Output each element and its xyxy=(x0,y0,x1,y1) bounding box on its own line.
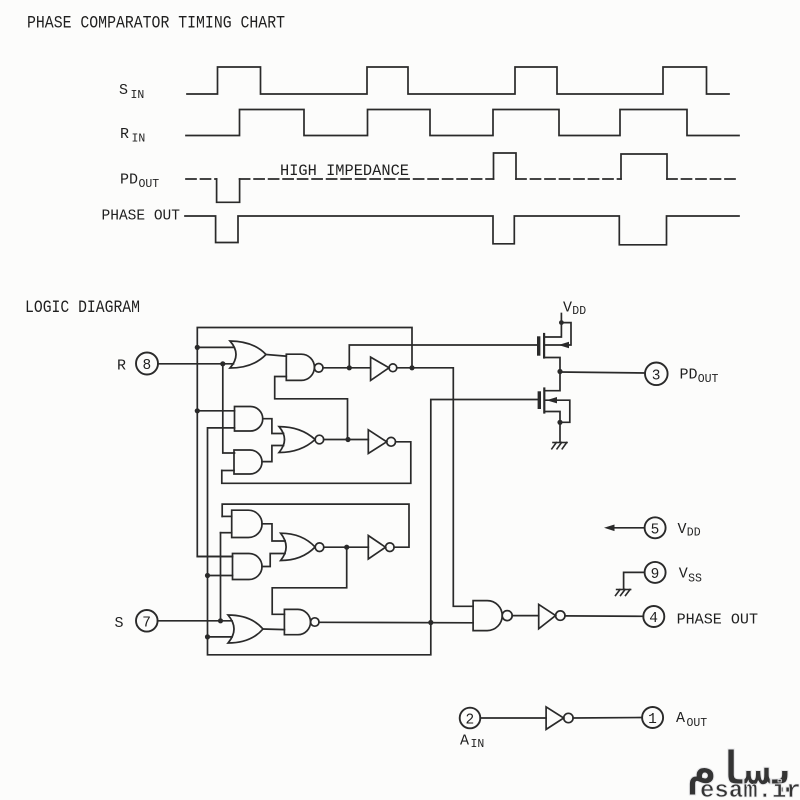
svg-text:OUT: OUT xyxy=(687,717,708,730)
ground symbol (VSS) xyxy=(616,590,631,596)
wire: INV4 output to pin 4 xyxy=(565,615,643,617)
inverter INV4 xyxy=(539,604,556,628)
waveform PD OUT low pulse xyxy=(217,179,240,202)
and-gate AND-B xyxy=(234,450,262,474)
pin 4 circle xyxy=(643,606,664,627)
svg-text:LOGIC DIAGRAM: LOGIC DIAGRAM xyxy=(25,298,140,318)
wire: OR1 top input from feedback rail xyxy=(197,346,234,348)
label PD OUT (pin 3) xyxy=(680,367,719,386)
wire: AND-C bottom input from S branch xyxy=(221,532,232,534)
bubble NAND2 output xyxy=(311,618,319,626)
wire: AND-A bottom input from NAND2-output rail xyxy=(209,427,235,429)
wire: AND-A output step into NOR2 top input xyxy=(263,419,284,434)
svg-text:A: A xyxy=(676,710,685,727)
svg-text:4: 4 xyxy=(649,611,658,627)
pin 8 circle xyxy=(136,353,158,375)
wire: VDD stub xyxy=(560,314,562,323)
and-gate AND-A xyxy=(235,407,263,432)
waveform PD OUT high pulse 1 xyxy=(494,153,517,179)
svg-text:3: 3 xyxy=(652,368,661,384)
wire: AND-D top input from vertical A (INV1 feedback) xyxy=(197,556,232,558)
wire: NOR2 output to INV2 xyxy=(324,439,369,441)
label A IN (pin 2) xyxy=(460,733,484,752)
svg-text:1: 1 xyxy=(648,712,657,728)
svg-text:5: 5 xyxy=(651,522,660,538)
wire: PMOS body loop xyxy=(545,323,571,345)
wire: pin 7 to OR4 top input xyxy=(158,620,232,622)
node: INV1 output dot xyxy=(409,365,414,370)
node: VDD junction dot xyxy=(559,320,564,325)
svg-text:PHASE OUT: PHASE OUT xyxy=(677,611,758,628)
node: NAND2 output dot xyxy=(428,620,433,625)
node: junction dot on R line xyxy=(220,361,225,366)
wire: NMOS drain from output node xyxy=(544,372,560,391)
svg-text:DD: DD xyxy=(687,527,701,540)
pin 5 circle xyxy=(645,517,666,538)
and-gate AND-C xyxy=(232,510,262,537)
wire: INV2 output wrap feedback to AND-B bottom input xyxy=(222,442,411,484)
svg-text:R: R xyxy=(120,126,129,143)
wire: AND-B output step into NOR2 bottom input xyxy=(262,446,284,462)
wire: INV5 to pin 1 xyxy=(573,717,642,720)
svg-text:2: 2 xyxy=(466,713,475,729)
label S IN xyxy=(119,82,144,102)
wire: NAND1 output riser to PMOS gate xyxy=(349,345,537,368)
node: NOR2 output dot xyxy=(345,437,350,442)
wire: NAND2 output to NAND3 bottom input xyxy=(319,621,473,624)
label V SS (pin 9) xyxy=(679,566,702,586)
wire: NAND1 output to INV1 xyxy=(323,367,371,369)
waveform S IN xyxy=(187,67,729,94)
watermark esam.ir xyxy=(688,746,800,800)
inverter INV5 xyxy=(546,707,564,730)
svg-text:SS: SS xyxy=(688,573,702,586)
nand-gate NAND1 xyxy=(286,354,314,380)
svg-text:PD: PD xyxy=(120,172,138,189)
svg-text:9: 9 xyxy=(651,567,660,583)
wire: NMOS source xyxy=(544,412,560,423)
inverter INV2 xyxy=(368,430,386,454)
bubble NAND1 output xyxy=(314,364,323,373)
pin 1 circle xyxy=(642,707,663,728)
nor-gate NOR3 xyxy=(281,533,316,560)
waveform PD OUT dashed baseline segment 3 xyxy=(516,178,621,180)
svg-text:IN: IN xyxy=(131,89,145,102)
label PD OUT xyxy=(120,172,159,192)
svg-text:7: 7 xyxy=(142,615,151,631)
bubble INV3 output xyxy=(386,543,395,552)
svg-text:8: 8 xyxy=(143,358,152,374)
pin 8 input R : label R xyxy=(117,358,126,375)
svg-text:PHASE OUT: PHASE OUT xyxy=(102,208,181,225)
wire: PMOS drain to output node xyxy=(544,358,560,372)
svg-text:OUT: OUT xyxy=(698,373,719,386)
wire: INV3 output feedback to AND-C top input xyxy=(222,504,409,547)
ground symbol (NMOS) xyxy=(552,443,567,449)
wire: S branch vertical xyxy=(220,533,222,621)
wire: NAND3 output to INV4 xyxy=(512,615,539,617)
svg-text:S: S xyxy=(115,615,124,632)
wire: AND-C output step into NOR3 top input xyxy=(262,524,285,541)
nor-gate NOR2 xyxy=(279,427,315,453)
label R IN xyxy=(120,126,145,146)
bubble INV5 output xyxy=(564,713,573,722)
node: dot vertical A / AND-A top input xyxy=(195,408,200,413)
svg-text:R: R xyxy=(117,358,126,375)
svg-text:PD: PD xyxy=(680,367,698,384)
node: dot NAND2 rail / OR4 bottom input xyxy=(205,634,210,639)
node: NOR3 output dot xyxy=(344,545,349,550)
pin 7 input S : label S xyxy=(115,615,124,632)
pin 7 circle xyxy=(136,610,158,632)
wire: OR4 output to NAND2 bottom input xyxy=(263,628,284,631)
wire: INV1 feedback rail (top wire + vertical A) xyxy=(197,328,412,557)
nand-gate NAND3 (phase) xyxy=(473,601,502,631)
wire: NMOS body loop xyxy=(545,400,570,422)
or-gate OR1 (R row) xyxy=(230,341,266,368)
transistor Q1 PMOS channel bar xyxy=(543,334,545,358)
bubble INV1 output xyxy=(389,364,397,372)
wire: NMOS source to ground xyxy=(559,422,561,441)
wire: NOR3 output down-left to NAND2 top input xyxy=(272,547,347,614)
waveform PD OUT dashed baseline segment 2 xyxy=(240,178,494,180)
and-gate AND-D xyxy=(233,554,263,580)
svg-text:PHASE COMPARATOR TIMING CHART: PHASE COMPARATOR TIMING CHART xyxy=(27,14,285,34)
svg-text:IN: IN xyxy=(471,738,485,751)
transistor Q2 NMOS channel bar xyxy=(543,389,545,413)
node: dot NAND2 rail / AND-D bottom input xyxy=(205,573,210,578)
waveform PD OUT high pulse 2 xyxy=(621,154,667,179)
wire: NAND1 bottom input feedback from NOR2 output xyxy=(275,377,348,440)
wire: NAND2 output riser to NMOS gate xyxy=(431,400,538,623)
wire: OR4 bottom input from NAND2-output rail xyxy=(208,636,233,638)
wire: AND-D bottom input from NAND2-output rail xyxy=(208,575,233,577)
waveform PD OUT dashed baseline segment 1 xyxy=(186,178,217,180)
node: NMOS source node dot xyxy=(557,420,562,425)
wire: output node to pin 3 xyxy=(560,372,645,373)
wire: pin 5 arrow line xyxy=(613,527,645,529)
svg-text:IN: IN xyxy=(132,133,146,146)
bubble NOR2 output xyxy=(315,435,324,444)
node: PD output node dot xyxy=(557,369,562,374)
svg-text:V: V xyxy=(678,521,687,538)
or-gate OR4 (S row) xyxy=(228,615,263,643)
node: junction dot on S line xyxy=(218,618,223,623)
inverter INV1 xyxy=(371,357,389,380)
svg-text:OUT: OUT xyxy=(139,178,160,191)
label V DD (top rail) xyxy=(563,300,586,319)
nand-gate NAND2 xyxy=(284,609,310,634)
svg-text:esam.ir: esam.ir xyxy=(700,778,800,800)
svg-text:V: V xyxy=(679,566,688,583)
svg-text:A: A xyxy=(460,733,469,750)
arrowhead NMOS body (points left) xyxy=(547,397,558,403)
arrowhead PMOS body (points left) xyxy=(559,342,570,348)
pin 3 circle xyxy=(645,363,668,386)
wire: AND-D output step into NOR3 bottom input xyxy=(262,554,285,567)
wire: AND-B bottom input from INV2 feedback xyxy=(222,470,234,472)
svg-text:DD: DD xyxy=(572,305,586,318)
transistor Q2 NMOS gate bar xyxy=(538,393,541,407)
wire: pin 9 to ground xyxy=(624,572,645,588)
wire: NOR3 output to INV3 xyxy=(324,546,369,548)
label A OUT (pin 1) xyxy=(676,710,707,730)
node: dot vertical A / OR1 top input xyxy=(195,345,200,350)
svg-text:S: S xyxy=(119,82,128,99)
waveform R IN xyxy=(186,110,739,136)
wire: pin 8 to OR1 lower input xyxy=(158,363,234,365)
waveform PD OUT dashed baseline segment 4 xyxy=(667,178,739,180)
wire: OR1 output to NAND1 top input xyxy=(266,355,286,357)
arrowhead pin 5 xyxy=(604,525,615,532)
wire: R branch down to AND-B top input xyxy=(223,364,235,453)
svg-text:V: V xyxy=(563,300,572,317)
wire: AND-C top input from INV3 feedback xyxy=(222,515,232,517)
pin 9 circle xyxy=(645,562,666,583)
bubble NAND3 output xyxy=(502,611,512,621)
wire: AND-A top input from vertical A xyxy=(197,410,234,412)
label V DD (pin 5) xyxy=(678,521,701,540)
wire: pin 2 to INV5 xyxy=(480,717,546,719)
wire: INV1 output to NAND3 top input xyxy=(397,368,473,607)
wire: NAND2 output wrap to left rail xyxy=(208,428,431,655)
svg-text:HIGH IMPEDANCE: HIGH IMPEDANCE xyxy=(280,162,409,180)
wire: PMOS source to VDD xyxy=(544,323,561,337)
inverter INV3 xyxy=(368,536,385,560)
waveform PHASE OUT xyxy=(185,216,739,245)
transistor Q1 PMOS gate bar xyxy=(537,338,540,354)
pin 2 circle xyxy=(460,708,481,729)
bubble INV4 output xyxy=(556,611,565,620)
bubble NOR3 output xyxy=(315,543,324,552)
bubble INV2 output xyxy=(387,437,396,446)
node: NAND1 output dot xyxy=(347,365,352,370)
